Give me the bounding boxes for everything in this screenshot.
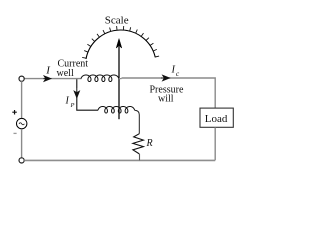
label Ic	[171, 65, 180, 78]
label -	[14, 132, 17, 134]
label R	[146, 138, 153, 149]
svg-text:P: P	[70, 102, 75, 109]
svg-text:will: will	[158, 94, 174, 105]
terminal (bottom-left)	[19, 158, 24, 163]
label I	[45, 65, 51, 77]
wire	[21, 81, 23, 118]
wire	[214, 127, 216, 160]
arrow Ic	[161, 75, 169, 80]
needle	[116, 39, 122, 120]
svg-text:Scale: Scale	[105, 15, 129, 27]
wire	[139, 154, 141, 160]
svg-text:I: I	[171, 65, 176, 76]
svg-text:I: I	[45, 65, 51, 77]
wire	[24, 159, 215, 161]
label Current well	[57, 59, 89, 80]
wire	[135, 110, 140, 134]
load box	[200, 108, 233, 127]
arrow Ip	[74, 88, 79, 98]
meter scale ticks	[82, 26, 159, 58]
current coil L1	[81, 75, 119, 82]
label Ip	[65, 96, 75, 109]
pressure coil L2	[98, 106, 135, 113]
wire	[21, 129, 23, 158]
label +	[12, 110, 16, 115]
label Pressure will	[150, 85, 184, 105]
wire	[77, 97, 98, 111]
label Scale	[105, 15, 129, 27]
wire	[119, 78, 122, 80]
svg-text:Load: Load	[205, 113, 228, 125]
svg-text:R: R	[146, 138, 153, 149]
svg-text:I: I	[65, 96, 70, 107]
resistor R	[133, 134, 144, 154]
arrow I	[44, 76, 51, 81]
AC source V	[17, 118, 27, 128]
terminal (top-left)	[19, 76, 24, 81]
svg-text:c: c	[176, 69, 180, 78]
svg-text:well: well	[57, 68, 74, 79]
wire	[24, 78, 81, 80]
meter scale arc	[86, 30, 155, 59]
wire	[122, 78, 216, 108]
node junction	[76, 79, 78, 88]
